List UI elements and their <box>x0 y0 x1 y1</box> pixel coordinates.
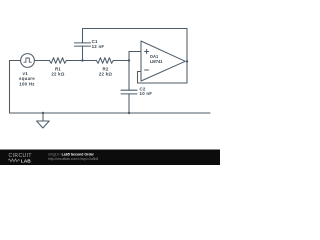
wire right vertical output <box>186 29 188 84</box>
svg-text:R2: R2 <box>102 66 108 71</box>
capacitor C2 <box>121 61 137 114</box>
wire R1 to node A <box>66 60 96 62</box>
junction ground node <box>42 112 44 114</box>
svg-text:LAB: LAB <box>21 158 31 164</box>
svg-text:mhg10 / Lab5 Second Order: mhg10 / Lab5 Second Order <box>48 153 95 157</box>
wire source to R1 <box>34 60 49 62</box>
ground <box>37 113 50 128</box>
junction C2 bottom <box>128 112 130 114</box>
resistor R1 <box>50 58 67 64</box>
resistor R2 <box>96 58 113 64</box>
footer bar <box>0 150 220 166</box>
voltage source v1 <box>21 54 35 68</box>
wire R2 to node B <box>113 60 129 62</box>
junction node A <box>81 59 83 61</box>
svg-text:http://circuitlab.com/c/hcp/c3: http://circuitlab.com/c/hcp/c3u5b8 <box>48 157 98 161</box>
svg-text:12 nF: 12 nF <box>92 44 105 49</box>
op-amp OA1 <box>141 41 185 81</box>
junction node B <box>128 59 130 61</box>
svg-text:10 nF: 10 nF <box>140 91 153 96</box>
svg-text:R1: R1 <box>55 66 61 71</box>
wire bottom rail <box>10 112 211 114</box>
wire feedback bottom <box>138 82 188 84</box>
svg-text:22 kΩ: 22 kΩ <box>51 72 65 77</box>
capacitor C1 <box>75 29 91 61</box>
wire noninverting input <box>129 52 141 61</box>
svg-text:LM741: LM741 <box>150 59 163 64</box>
svg-text:square: square <box>19 76 35 81</box>
wire left vertical <box>9 61 11 114</box>
junction output node <box>186 60 188 62</box>
svg-text:22 kΩ: 22 kΩ <box>99 72 113 77</box>
wire top feedback horizontal <box>83 28 188 30</box>
svg-text:100 Hz: 100 Hz <box>19 81 35 86</box>
logo CircuitLab <box>8 153 32 164</box>
svg-text:CIRCUIT: CIRCUIT <box>9 153 32 159</box>
wire feedback to inverting input <box>138 72 142 84</box>
wire source left stub <box>10 60 21 62</box>
